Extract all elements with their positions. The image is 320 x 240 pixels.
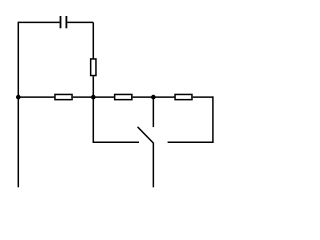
wire switch left contact horizontal — [93, 141, 139, 143]
wire left vertical lower terminal — [17, 97, 19, 187]
node C — [151, 95, 156, 100]
resistor R1 — [91, 59, 96, 76]
resistor R2 — [55, 94, 72, 99]
node B — [91, 95, 96, 100]
wire bus R4 to right corner — [193, 96, 213, 98]
wire bus R3 to R4 — [133, 96, 175, 98]
resistor R3 — [115, 94, 132, 99]
wire switch top contact vertical — [152, 97, 154, 127]
capacitor C1 — [61, 16, 67, 28]
wire top-right horizontal — [67, 21, 93, 23]
wire top-left horizontal — [18, 21, 60, 23]
wire bus R2 to R3 — [73, 96, 114, 98]
node A — [16, 95, 21, 100]
wire right branch vertical upper — [92, 22, 94, 58]
wire resistor R1 to node B — [92, 76, 94, 97]
wire left vertical upper — [17, 22, 19, 97]
wire node B down vertical — [92, 97, 94, 142]
switch SW1 blade — [138, 127, 153, 143]
wire right vertical — [212, 96, 214, 142]
wire bottom-right horizontal — [168, 141, 214, 143]
wire switch bottom terminal — [152, 143, 154, 188]
resistor R4 — [175, 94, 192, 99]
wire bus A to R2 — [18, 96, 54, 98]
